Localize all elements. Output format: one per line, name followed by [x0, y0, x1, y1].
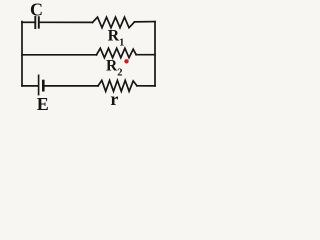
resistor R1 zigzag	[93, 17, 135, 28]
battery E long plate	[38, 75, 40, 94]
svg-text:R2: R2	[106, 57, 122, 78]
wire left vertical	[21, 22, 23, 86]
svg-text:r: r	[110, 89, 118, 109]
wire right vertical	[154, 22, 156, 86]
svg-text:E: E	[37, 94, 49, 114]
svg-text:R1: R1	[108, 28, 125, 49]
wire middle-left segment	[22, 54, 97, 56]
wire top-middle segment	[40, 21, 93, 23]
capacitor C right plate	[38, 17, 40, 28]
svg-text:C: C	[30, 0, 43, 20]
battery E short plate	[42, 81, 45, 90]
capacitor C left plate	[34, 17, 36, 28]
resistor r zigzag	[98, 80, 137, 91]
wire top-left segment	[22, 21, 34, 23]
wire middle-right segment	[136, 54, 155, 56]
wire top-right segment	[135, 21, 156, 23]
wire bottom-left segment	[22, 85, 38, 87]
resistor R2 zigzag	[97, 48, 137, 57]
wire bottom-right segment	[137, 85, 155, 87]
wire bottom-middle segment	[45, 85, 98, 87]
node marker (red dot)	[124, 59, 128, 63]
